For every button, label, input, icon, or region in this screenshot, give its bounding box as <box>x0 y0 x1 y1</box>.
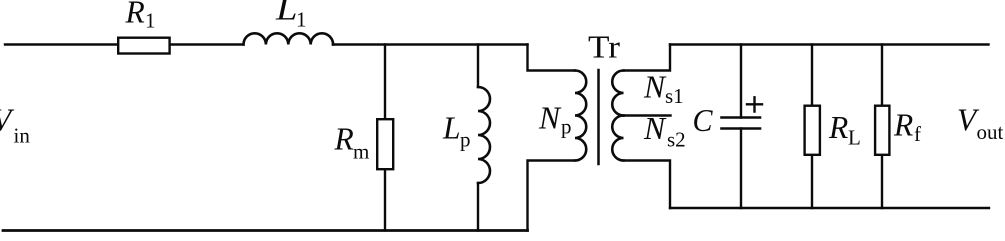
capacitor C top plate <box>722 116 761 119</box>
svg-text:N: N <box>643 70 667 105</box>
capacitor C bottom plate <box>722 127 761 130</box>
svg-text:f: f <box>914 122 921 146</box>
svg-text:in: in <box>14 124 31 148</box>
wire RL bottom lead <box>811 156 813 208</box>
wire Lp branch bottom <box>477 183 479 231</box>
resistor Rf <box>875 106 889 155</box>
wire RL top lead <box>811 45 813 105</box>
resistor RL <box>805 106 820 155</box>
transformer primary winding Np <box>575 70 586 160</box>
wire Rm branch top <box>384 45 386 119</box>
wire top-left from Vin port to R1 <box>5 43 117 45</box>
wire C bottom lead <box>740 129 742 209</box>
wire bottom-left rail <box>3 229 528 232</box>
inductor L1 <box>244 33 334 44</box>
wire R1 to L1 <box>171 43 244 45</box>
wire secondary bottom lead <box>624 161 671 209</box>
wire L1 to primary corner <box>333 43 528 45</box>
svg-text:R: R <box>125 0 145 30</box>
wire secondary center tap <box>624 114 671 116</box>
transformer core <box>597 70 600 164</box>
svg-text:R: R <box>893 108 913 143</box>
wire Rf top lead <box>881 45 883 105</box>
svg-text:L: L <box>275 0 298 27</box>
wire Lp branch top <box>477 45 479 88</box>
svg-text:R: R <box>828 110 848 145</box>
svg-text:s2: s2 <box>667 128 686 152</box>
svg-text:L: L <box>442 111 461 146</box>
svg-text:1: 1 <box>145 9 156 33</box>
svg-text:m: m <box>353 140 369 164</box>
wire C top lead <box>740 45 742 118</box>
svg-text:N: N <box>643 111 667 146</box>
inductor Lp <box>478 87 490 183</box>
resistor Rm <box>377 119 393 169</box>
resistor R1 <box>118 38 169 54</box>
wire primary top lead <box>528 45 576 71</box>
wire Rf bottom lead <box>881 156 883 208</box>
wire bottom-right rail <box>670 207 989 209</box>
wire secondary top lead <box>624 45 671 71</box>
svg-text:L: L <box>848 126 861 150</box>
wire primary bottom lead <box>528 161 576 231</box>
wire top-right rail <box>670 43 989 45</box>
svg-text:R: R <box>334 122 354 157</box>
svg-text:p: p <box>460 128 471 152</box>
svg-text:Tr: Tr <box>588 30 621 65</box>
transformer secondary winding Ns1 <box>612 70 623 115</box>
wire Rm branch bottom <box>384 171 386 231</box>
svg-text:p: p <box>561 115 572 139</box>
transformer secondary winding Ns2 <box>612 116 623 161</box>
svg-text:s1: s1 <box>665 84 684 108</box>
svg-text:1: 1 <box>296 8 307 32</box>
svg-text:N: N <box>538 101 562 136</box>
svg-text:out: out <box>977 120 1004 144</box>
polarity plus sign <box>747 97 762 111</box>
svg-text:C: C <box>693 103 714 138</box>
